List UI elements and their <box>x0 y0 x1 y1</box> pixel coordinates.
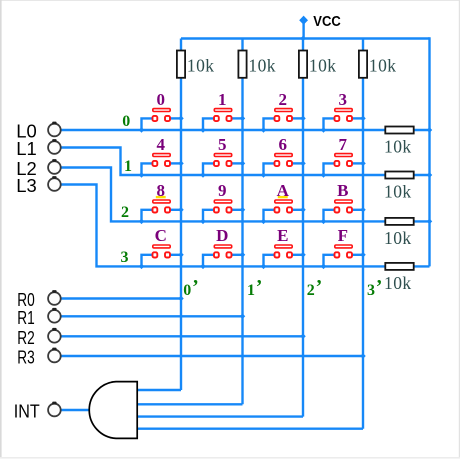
value label 10k <box>384 137 412 157</box>
wire INT output <box>62 409 91 411</box>
push button 1 <box>203 109 243 130</box>
junction button A stub/row <box>261 219 267 225</box>
node label row 2 <box>121 204 129 221</box>
value label 10k <box>309 55 337 75</box>
push button F <box>324 245 364 266</box>
junction VCC/top bus <box>300 36 306 42</box>
push button D <box>203 245 243 266</box>
wire gate input 1 <box>137 389 181 391</box>
key label 7 <box>339 135 348 154</box>
junction button 8 stub/row <box>139 219 145 225</box>
resistor pullup 2 10k <box>238 51 246 78</box>
junction button 1/column 1' <box>240 116 246 122</box>
push button 4 <box>142 154 182 175</box>
svg-text:2: 2 <box>279 90 288 109</box>
wire R0 <box>62 297 182 299</box>
key label B <box>337 181 348 200</box>
junction button 2/column 2' <box>300 116 306 122</box>
label R1 <box>17 308 35 328</box>
key label 1 <box>218 90 227 109</box>
wire gate input 4 <box>137 428 363 430</box>
junction button 2 stub/row <box>261 127 267 133</box>
resistor pullup 4 10k <box>359 51 367 78</box>
svg-text:R1: R1 <box>17 308 35 328</box>
junction button 7 stub/row <box>321 172 327 178</box>
label L2 <box>16 159 37 179</box>
value label 10k <box>384 273 412 293</box>
svg-text:5: 5 <box>218 135 227 154</box>
push button E <box>264 245 304 266</box>
svg-text:10k: 10k <box>384 273 412 293</box>
svg-text:C: C <box>155 226 167 245</box>
svg-text:10k: 10k <box>369 55 397 75</box>
junction R1/column 1' <box>240 314 246 320</box>
label INT <box>14 402 40 422</box>
key label 4 <box>157 135 166 154</box>
key label 9 <box>218 181 227 200</box>
terminal R2 <box>48 328 61 343</box>
resistor pullup 1 10k <box>177 51 185 78</box>
junction button 7/column 3' <box>360 161 366 167</box>
junction button 5/column 1' <box>240 161 246 167</box>
key label 8 <box>157 181 166 200</box>
svg-text:L1: L1 <box>16 139 37 159</box>
node label column 1prime <box>247 276 262 299</box>
push button 3 <box>324 109 364 130</box>
svg-text:10k: 10k <box>384 137 412 157</box>
terminal L2 <box>48 159 61 174</box>
push button 2 <box>264 109 304 130</box>
push button 0 <box>142 109 182 130</box>
junction button B/column 3' <box>360 207 366 213</box>
svg-text:F: F <box>338 226 348 245</box>
svg-text:A: A <box>277 181 290 200</box>
svg-text:10k: 10k <box>309 55 337 75</box>
terminal L1 <box>48 139 61 154</box>
junction button 4/column 0' <box>178 161 184 167</box>
junction button 3/column 3' <box>360 116 366 122</box>
junction button E/column 2' <box>300 252 306 257</box>
wire row L2 <box>62 168 430 222</box>
value label 10k <box>384 182 412 202</box>
pressed highlight 8 <box>156 196 166 198</box>
junction button 0/column 0' <box>178 116 184 122</box>
junction right bus <box>427 172 433 178</box>
svg-text:’: ’ <box>256 276 263 298</box>
svg-text:10k: 10k <box>384 182 412 202</box>
terminal R3 <box>48 348 61 363</box>
push button 6 <box>264 154 304 175</box>
svg-text:8: 8 <box>157 181 166 200</box>
junction button 5 stub/row <box>200 172 206 178</box>
pressed highlight A <box>278 196 288 198</box>
junction button A/column 2' <box>300 207 306 213</box>
key label F <box>338 226 348 245</box>
AND gate U1 (mirrored) <box>89 382 137 439</box>
wire row L0 <box>62 129 430 131</box>
svg-text:B: B <box>337 181 348 200</box>
wire R3 <box>62 355 364 357</box>
junction R2/column 2' <box>300 334 306 340</box>
value label 10k <box>369 55 397 75</box>
junction button 9/column 1' <box>240 207 246 213</box>
svg-text:INT: INT <box>14 402 40 422</box>
junction button 3 stub/row <box>321 127 327 133</box>
junction button 4 stub/row <box>139 172 145 178</box>
junction R3/column 3' <box>360 353 366 359</box>
key label 0 <box>157 90 166 109</box>
svg-text:’: ’ <box>192 276 199 298</box>
node label column 3prime <box>367 276 382 299</box>
wire column 0' vertical <box>180 39 182 391</box>
resistor row 2 10k <box>385 218 413 225</box>
svg-text:4: 4 <box>157 135 166 154</box>
key label 5 <box>218 135 227 154</box>
junction button 0 stub/row <box>139 127 145 133</box>
wire column 3' vertical <box>362 39 364 429</box>
svg-text:10k: 10k <box>248 55 276 75</box>
key label E <box>277 226 288 245</box>
value label 10k <box>187 55 215 75</box>
svg-text:3: 3 <box>339 90 348 109</box>
wire row L3 <box>62 185 430 267</box>
wire top supply bus <box>181 37 430 39</box>
junction button F stub/row <box>321 264 327 270</box>
push button 7 <box>324 154 364 175</box>
svg-text:0: 0 <box>157 90 166 109</box>
svg-text:’: ’ <box>376 276 383 298</box>
junction button C stub/row <box>139 264 145 270</box>
svg-text:D: D <box>216 226 228 245</box>
node label row 1 <box>124 158 132 175</box>
wire R2 <box>62 335 304 337</box>
svg-text:R2: R2 <box>17 328 35 348</box>
wire gate input 2 <box>137 403 243 405</box>
wire column 1' vertical <box>241 39 243 405</box>
key label C <box>155 226 167 245</box>
wire gate input 3 <box>137 415 303 417</box>
svg-text:7: 7 <box>339 135 348 154</box>
label VCC <box>313 14 341 30</box>
key label A <box>277 181 290 200</box>
terminal L0 <box>48 122 61 137</box>
junction button D stub/row <box>200 264 206 270</box>
junction button 6/column 2' <box>300 161 306 167</box>
key label D <box>216 226 228 245</box>
key label 6 <box>279 135 288 154</box>
key label 2 <box>279 90 288 109</box>
resistor row 1 10k <box>385 172 413 179</box>
push button C <box>142 245 182 266</box>
junction button 6 stub/row <box>261 172 267 178</box>
key label 3 <box>339 90 348 109</box>
push button 8 <box>142 200 182 221</box>
svg-text:2: 2 <box>307 282 315 299</box>
junction button C/column 0' <box>178 252 184 257</box>
svg-text:1: 1 <box>218 90 227 109</box>
label L1 <box>16 139 37 159</box>
svg-text:VCC: VCC <box>313 14 341 30</box>
junction right bus <box>427 127 433 133</box>
junction button E stub/row <box>261 264 267 270</box>
svg-text:6: 6 <box>279 135 288 154</box>
push button A <box>264 200 304 221</box>
value label 10k <box>384 228 412 248</box>
label L3 <box>16 176 37 196</box>
wire VCC stub <box>302 22 304 39</box>
junction R0/column 0' <box>178 296 184 302</box>
junction button F/column 3' <box>360 252 366 257</box>
svg-text:9: 9 <box>218 181 227 200</box>
node label column 2prime <box>307 276 322 299</box>
node label row 3 <box>121 249 129 266</box>
svg-text:1: 1 <box>247 282 255 299</box>
svg-text:10k: 10k <box>187 55 215 75</box>
label R2 <box>17 328 35 348</box>
resistor row 0 10k <box>385 127 413 134</box>
value label 10k <box>248 55 276 75</box>
wire R1 <box>62 315 243 317</box>
junction button 9 stub/row <box>200 219 206 225</box>
wire right bus <box>428 37 430 266</box>
svg-text:1: 1 <box>124 158 132 175</box>
terminal R0 <box>48 290 61 305</box>
terminal L3 <box>48 176 61 191</box>
svg-text:E: E <box>277 226 288 245</box>
svg-text:2: 2 <box>121 204 129 221</box>
svg-text:10k: 10k <box>384 228 412 248</box>
push button B <box>324 200 364 221</box>
resistor pullup 3 10k <box>299 51 307 78</box>
label R3 <box>17 348 35 368</box>
node label row 0 <box>122 113 130 130</box>
wire column 2' vertical <box>302 39 304 417</box>
label L0 <box>16 122 37 142</box>
svg-text:3: 3 <box>121 249 129 266</box>
junction button 1 stub/row <box>200 127 206 133</box>
junction button 8/column 0' <box>178 207 184 213</box>
wire row L1 <box>62 148 430 176</box>
svg-text:’: ’ <box>316 276 323 298</box>
push button 9 <box>203 200 243 221</box>
junction right bus <box>427 219 433 225</box>
junction button B stub/row <box>321 219 327 225</box>
node label column 0prime <box>183 276 198 299</box>
terminal INT <box>48 402 61 417</box>
label R0 <box>17 290 35 310</box>
svg-text:3: 3 <box>367 282 375 299</box>
svg-text:0: 0 <box>183 282 191 299</box>
svg-text:R3: R3 <box>17 348 35 368</box>
svg-text:0: 0 <box>122 113 130 130</box>
VCC terminal <box>299 16 308 25</box>
resistor row 3 10k <box>385 263 413 270</box>
svg-text:L3: L3 <box>16 176 37 196</box>
terminal R1 <box>48 308 61 323</box>
junction button D/column 1' <box>240 252 246 257</box>
push button 5 <box>203 154 243 175</box>
